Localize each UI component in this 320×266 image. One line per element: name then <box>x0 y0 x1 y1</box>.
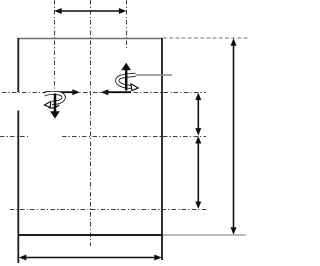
centerline X3 (x=126) <box>126 0 128 48</box>
right inner dimension line upper segment <box>195 93 201 136</box>
feed arrow right (at left helix) <box>45 89 80 95</box>
workpiece right edge <box>161 38 163 260</box>
left helix plunge arrow (down) <box>50 94 60 119</box>
workpiece top edge (gray) <box>18 38 162 40</box>
gray feed line from right helix <box>129 74 172 76</box>
right inner dimension line lower segment <box>195 136 201 209</box>
machining direction diagram <box>0 0 256 266</box>
centerline Y2 left stub (y=136) <box>0 136 29 138</box>
centerline Y1 (y=92.3) <box>2 92 206 94</box>
right helix ribbon <box>117 75 138 91</box>
centerline Y2 (y=136) <box>62 136 206 138</box>
centerline X1 (x=54) <box>54 0 56 97</box>
feed arrow left (at right helix) <box>101 89 131 95</box>
bottom dimension line <box>19 255 162 261</box>
workpiece left edge upper <box>17 38 19 92</box>
top dimension line <box>54 8 126 14</box>
centerline X2 (x=90) <box>90 0 92 246</box>
right outer dimension line (full height) <box>231 38 237 235</box>
workpiece bottom edge <box>18 234 163 236</box>
right helix retract arrow (up) <box>121 63 131 91</box>
centerline Y3 (y=209) <box>10 209 207 211</box>
left helix ribbon <box>44 93 64 108</box>
bottom extension line (gray) <box>163 234 246 236</box>
top extension line (gray dashed) <box>163 37 249 39</box>
workpiece left edge lower <box>17 111 19 264</box>
